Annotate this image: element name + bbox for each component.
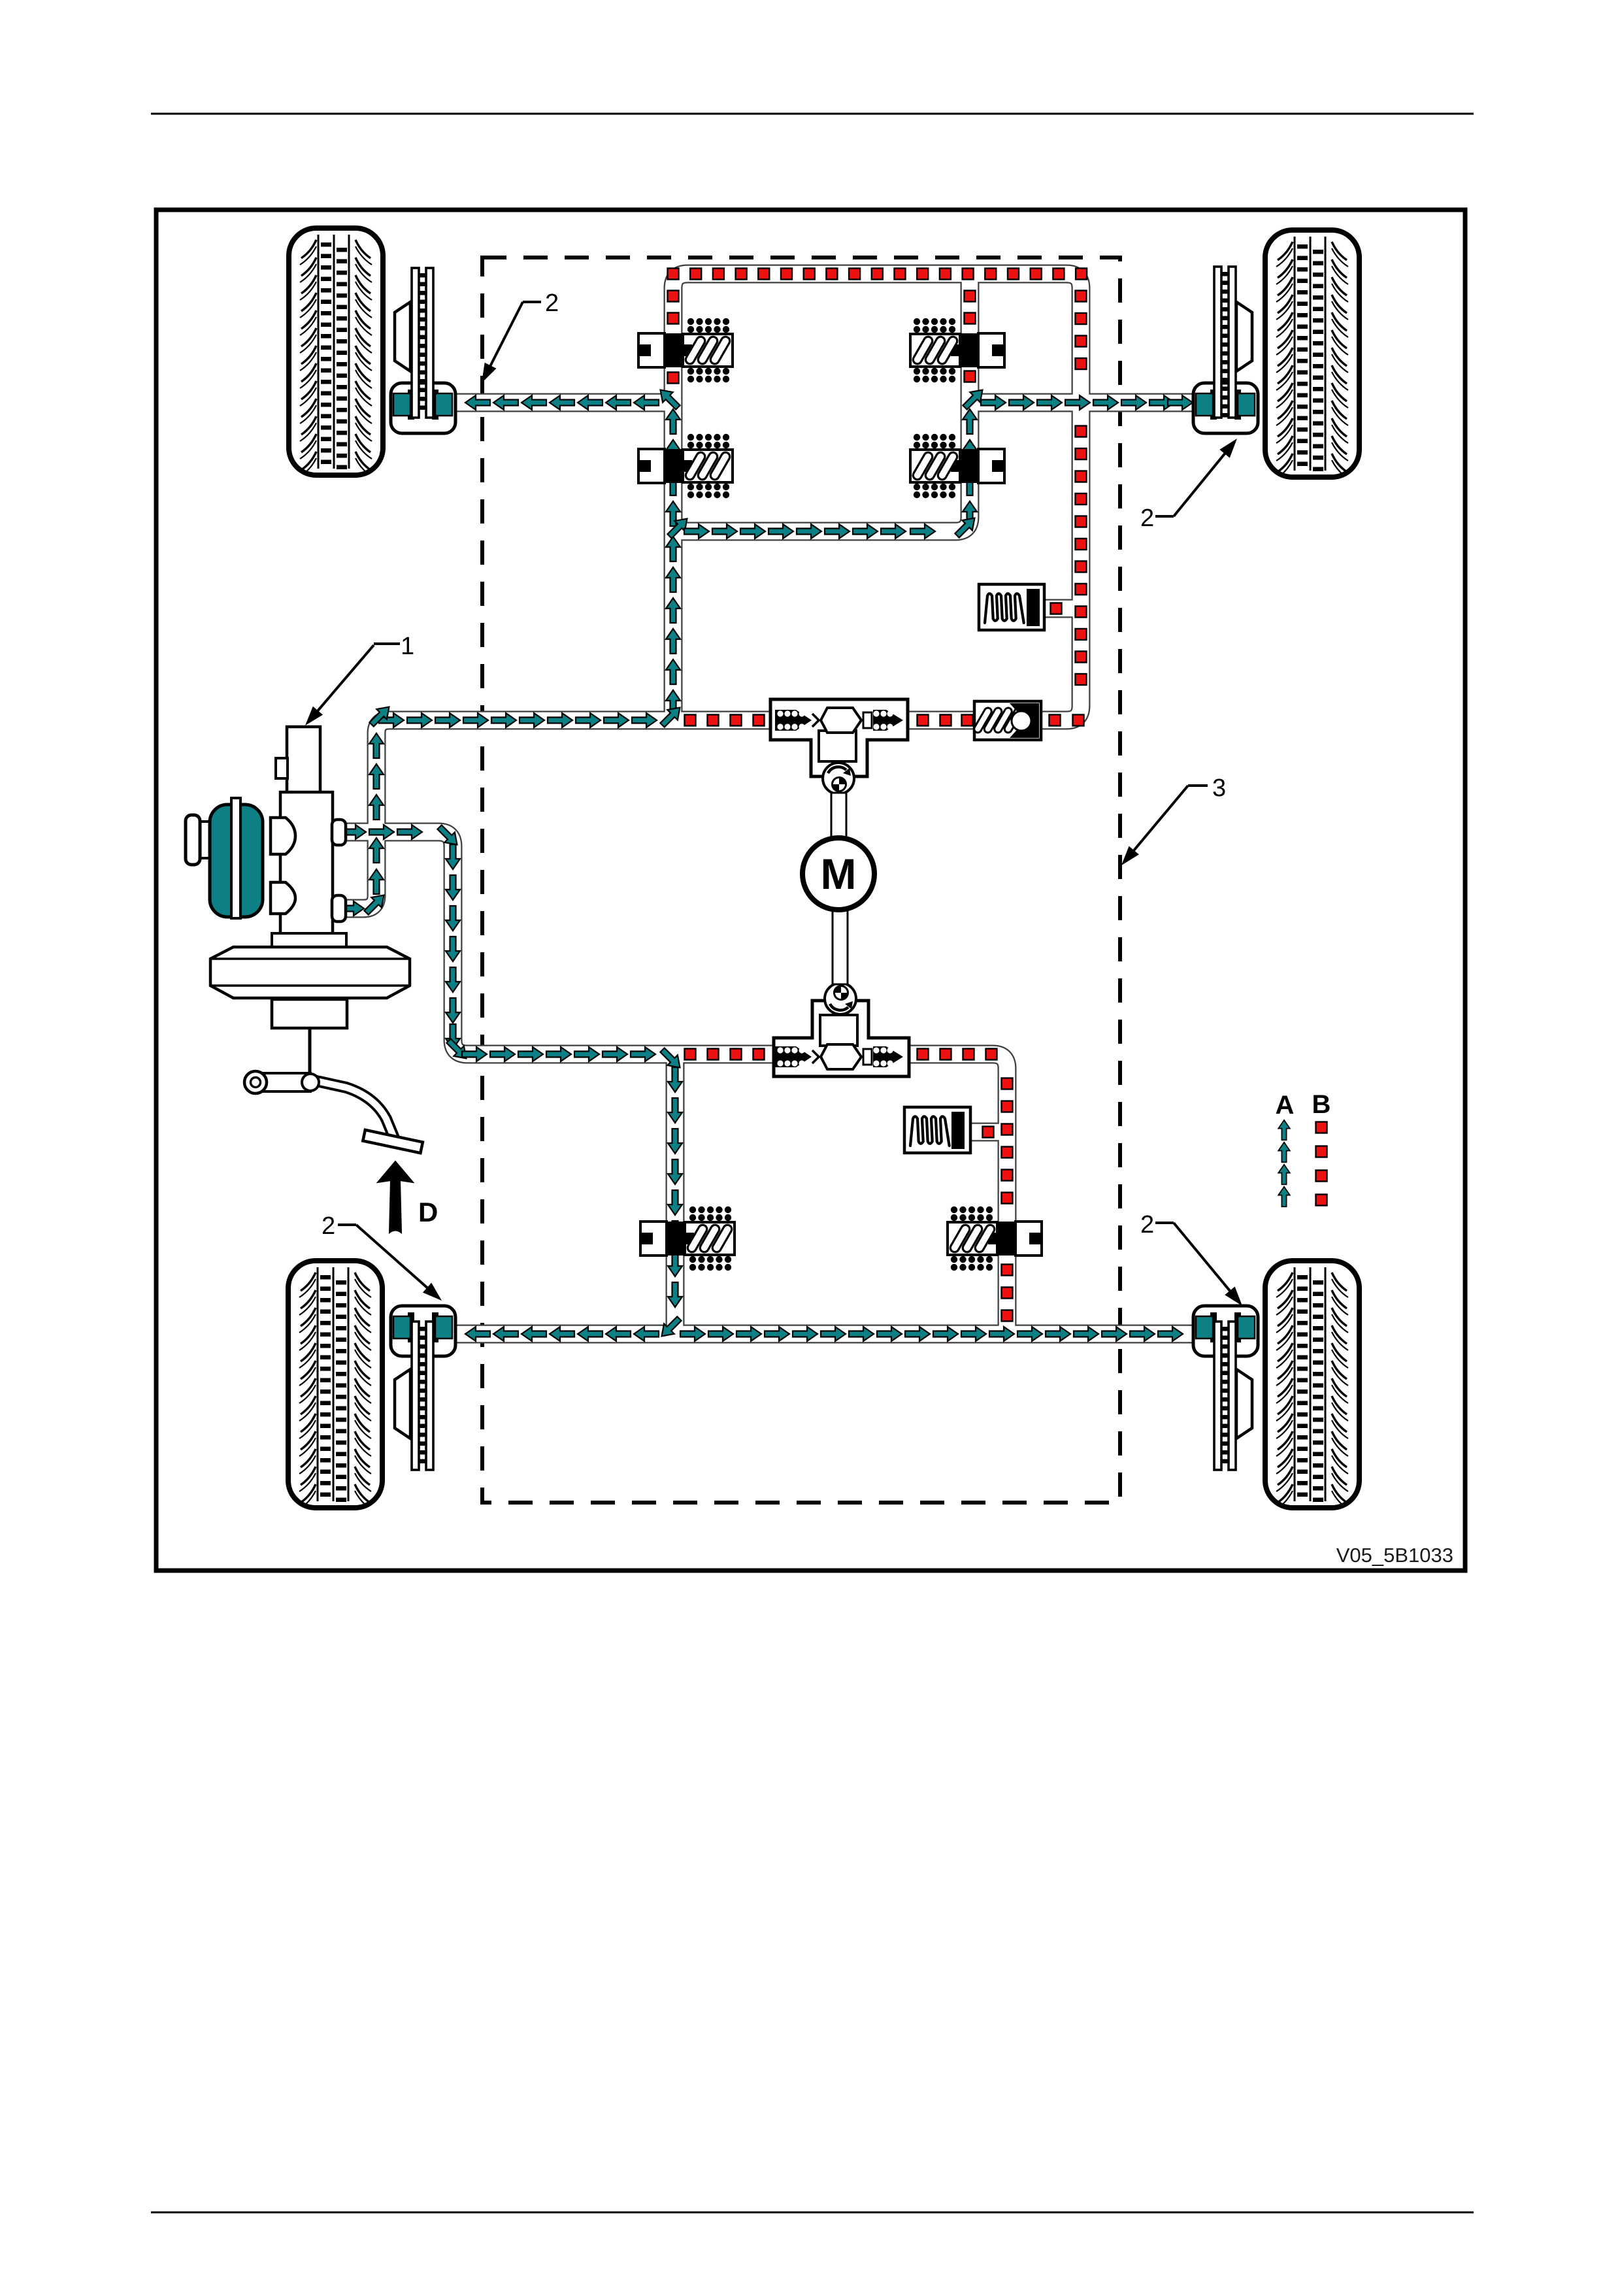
svg-text:2: 2 — [545, 290, 559, 317]
rear-left caliper 2 — [391, 1306, 455, 1356]
svg-text:B: B — [1312, 1090, 1331, 1119]
bottom page rule — [151, 2212, 1474, 2214]
svg-text:3: 3 — [1212, 774, 1226, 802]
svg-text:A: A — [1276, 1091, 1295, 1120]
reservoir port upper — [271, 818, 295, 854]
front-left wheel tire — [289, 228, 383, 476]
rear-right wheel tire — [1265, 1261, 1359, 1509]
front-right hub carrier — [1236, 302, 1252, 371]
rear-left hub carrier — [395, 1369, 410, 1439]
svg-text:2: 2 — [1140, 505, 1154, 532]
svg-text:V05_5B1033: V05_5B1033 — [1336, 1544, 1453, 1567]
pipe front-right wheel line — [968, 395, 1196, 411]
path A teal arrow chain — [339, 385, 1193, 1341]
front-right wheel tire — [1265, 230, 1359, 478]
pipe rear wheel line — [450, 1326, 1196, 1342]
svg-text:1: 1 — [401, 633, 414, 660]
outlet valve front-right — [910, 318, 1004, 382]
pipe secondary circuit L2 — [346, 832, 778, 1054]
rear-left wheel tire — [288, 1261, 382, 1509]
brake fluid reservoir — [186, 798, 263, 918]
accumulator rear circuit — [904, 1107, 970, 1153]
pipe A left column front — [665, 401, 682, 722]
pipe B mid column front — [962, 280, 978, 404]
hydraulic pipes walls — [346, 274, 1196, 1335]
pipe accumulator stub front — [1043, 601, 1082, 617]
outlet port primary — [332, 820, 346, 845]
label 3 leader — [1188, 784, 1208, 787]
pedal force arrow D — [378, 1161, 438, 1233]
label 2 rear-right leader — [1155, 1222, 1174, 1224]
hydraulic pipes bores — [346, 274, 1196, 1335]
motor shaft lower — [833, 908, 848, 984]
rear-left brake disc — [412, 1322, 433, 1470]
inlet valve front-left — [638, 434, 733, 498]
inlet valve rear-left — [640, 1206, 735, 1271]
legend A arrows — [1278, 1120, 1290, 1206]
outlet port secondary — [332, 895, 346, 922]
rear-right hub carrier — [1236, 1369, 1252, 1439]
label 2 front-left leader — [523, 301, 541, 303]
master cylinder 1 — [276, 727, 333, 935]
svg-text:M: M — [821, 850, 857, 898]
label 2 front-right leader — [1155, 515, 1174, 518]
svg-text:2: 2 — [1140, 1211, 1154, 1239]
pump rear circuit — [774, 983, 909, 1076]
rear-right brake disc — [1214, 1322, 1236, 1470]
front-left hub carrier — [395, 302, 410, 371]
electric motor M — [802, 838, 874, 910]
top page rule — [151, 113, 1474, 115]
pipe B return loop front — [673, 274, 1081, 720]
pipe front-left wheel line — [450, 395, 674, 411]
accumulator front circuit — [979, 584, 1044, 630]
pipe B rear return — [906, 1054, 1007, 1335]
svg-text:2: 2 — [322, 1212, 335, 1240]
outlet valve front-left — [638, 318, 733, 382]
hydraulic unit dashed boundary 3 — [482, 258, 1120, 1503]
reservoir port lower — [271, 882, 295, 914]
pipe primary circuit L1 — [346, 720, 778, 908]
motor shaft upper — [831, 793, 846, 840]
svg-text:D: D — [418, 1197, 438, 1227]
vacuum booster — [210, 933, 410, 1028]
outlet valve rear-right — [948, 1206, 1042, 1271]
pump front circuit — [770, 699, 908, 794]
diagram frame — [156, 210, 1465, 1571]
path B red square chain — [668, 269, 1327, 1322]
label 1 leader — [374, 642, 400, 645]
pedal lever — [244, 1071, 394, 1138]
front-left brake disc — [412, 268, 433, 418]
label 2 rear-left leader — [338, 1223, 356, 1226]
inlet valve front-right — [910, 434, 1004, 498]
front-right caliper 2 — [1193, 383, 1258, 433]
pipe A rear column — [667, 1053, 684, 1335]
pushrod — [308, 1028, 312, 1078]
brake pedal — [363, 1130, 423, 1153]
rear-right caliper 2 — [1193, 1306, 1258, 1356]
front-right brake disc — [1214, 267, 1236, 418]
front-left caliper 2 — [391, 383, 455, 433]
pipe accumulator stub rear — [969, 1124, 1008, 1140]
damper chamber front circuit — [973, 701, 1041, 740]
pipe A bottom loop front — [673, 403, 970, 531]
